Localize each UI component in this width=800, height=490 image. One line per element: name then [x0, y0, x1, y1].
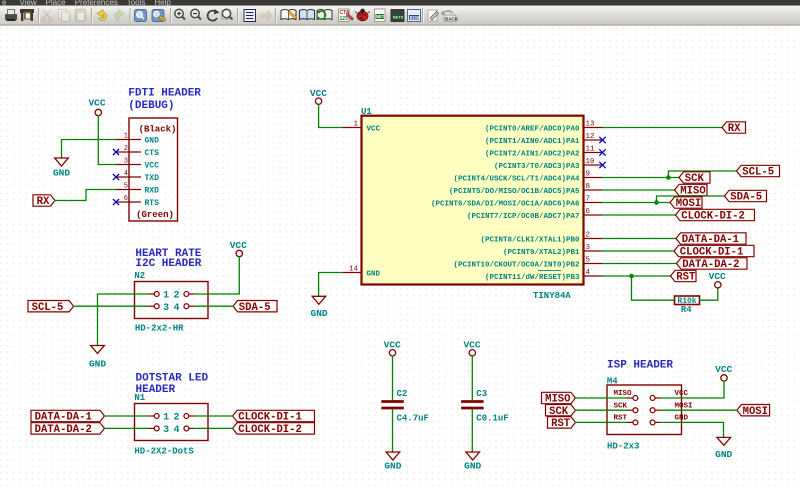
icon library editor: [281, 10, 297, 20]
global label MISO (right): [675, 184, 708, 195]
wire M4 to MOSI: [662, 409, 737, 411]
svg-text:DATA-DA-1: DATA-DA-1: [682, 234, 739, 246]
pin 3 VCC of FDTI header: [116, 164, 141, 166]
svg-text:GND: GND: [311, 308, 328, 319]
svg-text:3: 3: [163, 303, 169, 314]
svg-text:(PCINT3/T0/ADC3)PA3: (PCINT3/T0/ADC3)PA3: [494, 163, 580, 171]
pin GND (right) of M4: [655, 421, 661, 423]
svg-text:HD-2x3: HD-2x3: [607, 442, 639, 452]
no-connect X on RTS pin: [113, 199, 119, 205]
svg-text:9: 9: [586, 171, 591, 179]
svg-text:RST: RST: [614, 415, 628, 423]
svg-text:GND: GND: [367, 270, 381, 278]
svg-text:SDA-5: SDA-5: [730, 192, 762, 204]
svg-text:RXD: RXD: [145, 186, 160, 195]
global label MOSI (right): [670, 197, 702, 208]
IC U1 body: [362, 116, 584, 285]
svg-text:1: 1: [163, 291, 169, 302]
icon rescue/archive: [317, 10, 333, 20]
wire MISO label to M4: [576, 397, 627, 399]
icon BOM: [408, 10, 421, 22]
svg-text:10: 10: [586, 158, 596, 166]
no-connect X on pin 12: [599, 137, 605, 143]
icon back-annotate: [441, 11, 459, 22]
pin RST (left) of M4: [627, 421, 633, 423]
svg-text:VCC: VCC: [715, 364, 732, 375]
connector N2 body: [135, 282, 209, 319]
svg-text:TXD: TXD: [145, 174, 160, 183]
svg-text:GND: GND: [715, 449, 732, 460]
icon zoom fit: [222, 9, 233, 19]
svg-text:6: 6: [586, 208, 591, 216]
global label SCL-5 (left): [28, 301, 74, 312]
svg-text:NET: NET: [376, 14, 385, 19]
global label CLOCK-DI-2 (U1): [676, 209, 755, 220]
global label RST (ISP): [548, 417, 576, 428]
wire VCC to M4: [662, 381, 725, 398]
pin 1 VCC of U1: [342, 127, 362, 129]
pin 8 PA5 of U1: [584, 189, 603, 191]
icon find-replace: [152, 10, 166, 22]
svg-text:14: 14: [349, 266, 359, 274]
svg-text:RX: RX: [37, 196, 50, 208]
svg-text:SCK: SCK: [549, 406, 569, 418]
wire VCC to C3: [471, 356, 473, 400]
power symbol VCC (C3): [469, 350, 475, 356]
svg-text:GND: GND: [145, 136, 160, 145]
toolbar separators: [38, 8, 40, 23]
svg-text:3: 3: [586, 244, 591, 252]
svg-text:MISO: MISO: [614, 390, 633, 398]
global label MISO (ISP): [542, 392, 576, 403]
svg-text:VCC: VCC: [384, 339, 401, 350]
svg-text:FDTI HEADER: FDTI HEADER: [128, 87, 201, 99]
svg-text:TINY84A: TINY84A: [533, 291, 571, 301]
svg-text:(PCINT11/dW/RESET)PB3: (PCINT11/dW/RESET)PB3: [485, 274, 580, 282]
icon find: [135, 10, 147, 22]
icon zoom out: [191, 9, 201, 19]
connector FDTI header body: [129, 118, 178, 221]
no-connect X on pin 10: [599, 162, 605, 168]
svg-text:MOSI: MOSI: [675, 402, 693, 410]
svg-text:SCL-5: SCL-5: [32, 302, 64, 314]
svg-text:(Black): (Black): [139, 125, 177, 135]
icon ERC ladybug: [355, 9, 370, 21]
global label RST (U1): [671, 270, 697, 281]
svg-text:3: 3: [163, 425, 169, 436]
global label RX (left): [33, 195, 55, 206]
wire pin3 to CLOCK-DI-1: [603, 250, 675, 252]
global label SDA-5 (right of N2): [233, 301, 277, 312]
svg-text:DATA-DA-2: DATA-DA-2: [682, 259, 739, 271]
svg-text:5: 5: [586, 257, 591, 265]
pin SCK (left) of M4: [627, 409, 633, 411]
pin 13 PA0 of U1: [584, 127, 603, 129]
pin 11 PA2 of U1: [584, 152, 603, 154]
svg-text:(PCINT1/AIN0/ADC1)PA1: (PCINT1/AIN0/ADC1)PA1: [485, 138, 580, 146]
svg-text:C2: C2: [397, 389, 408, 399]
global label RX (right): [722, 122, 746, 133]
svg-text:RX: RX: [728, 123, 741, 135]
icon redo (disabled): [115, 10, 125, 21]
svg-text:5: 5: [124, 183, 128, 191]
global label SCL-5 (right): [737, 165, 780, 176]
global label CLOCK-DI-1 (U1): [674, 245, 754, 256]
pin VCC (right) of M4: [655, 397, 661, 399]
svg-text:CLOCK-DI-2: CLOCK-DI-2: [238, 424, 302, 436]
icon assign footprints: [428, 10, 439, 21]
pin 14 GND of U1: [342, 272, 362, 274]
wire VCC to N2 pin2: [195, 257, 240, 294]
wire M4 to GND: [662, 422, 724, 437]
wire pin6 to CLOCK-DI-2: [603, 214, 676, 216]
wire N2 pin4 to SDA-5: [195, 305, 234, 307]
icon redraw: [208, 9, 220, 21]
svg-text:MOSI: MOSI: [676, 198, 701, 210]
wire U1 pin14 to GND: [319, 273, 342, 297]
no-connect X on TXD pin: [113, 174, 119, 180]
svg-text:RST: RST: [676, 272, 696, 284]
wire pin4 to RST: [603, 275, 671, 277]
svg-text:2: 2: [173, 291, 179, 302]
pin MOSI (right) of M4: [655, 409, 661, 411]
svg-text:VCC: VCC: [463, 339, 480, 350]
svg-text:3: 3: [124, 158, 128, 166]
pin 3 PB1 of U1: [584, 250, 603, 252]
svg-text:SDA-5: SDA-5: [239, 302, 271, 314]
svg-text:GND: GND: [464, 461, 481, 472]
pin 6 PA7 of U1: [584, 214, 603, 216]
svg-text:4: 4: [586, 269, 591, 277]
icon print: [5, 10, 17, 22]
svg-text:ISP HEADER: ISP HEADER: [607, 359, 673, 371]
global label CLOCK-DI-2 (right): [233, 423, 315, 434]
wire pin7 to MOSI and SDA-5: [603, 202, 671, 204]
svg-text:VCC: VCC: [675, 390, 689, 398]
svg-text:CLOCK-DI-2: CLOCK-DI-2: [681, 211, 745, 223]
wire VCC to FDTI pin3: [98, 116, 116, 165]
svg-text:I2C HEADER: I2C HEADER: [135, 258, 201, 270]
svg-text:(PCINT2/AIN1/ADC2)PA2: (PCINT2/AIN1/ADC2)PA2: [485, 150, 580, 158]
svg-text:VCC: VCC: [367, 125, 381, 133]
wire DATA-DA-1 to N1 pin1: [105, 415, 148, 417]
svg-text:N2: N2: [134, 271, 145, 281]
svg-text:1: 1: [353, 121, 358, 129]
pin 1 GND of FDTI header: [116, 139, 141, 141]
svg-text:BACK: BACK: [445, 16, 459, 21]
svg-text:SCK: SCK: [685, 173, 705, 185]
svg-text:DATA-DA-1: DATA-DA-1: [35, 412, 92, 424]
icon hierarchy list: [244, 10, 256, 22]
svg-text:(PCINT5/DO/MISO/OC1B/ADC5)PA5: (PCINT5/DO/MISO/OC1B/ADC5)PA5: [449, 188, 580, 196]
wire C2 to GND: [392, 409, 394, 452]
wire pin13 to RX: [603, 127, 723, 129]
wire junction to R4: [632, 276, 675, 300]
global label SDA-5 (right): [725, 190, 767, 201]
icon nets highlight: [391, 10, 404, 22]
wire pin5 to DATA-DA-2: [603, 263, 677, 265]
icon cut (disabled): [42, 10, 53, 22]
svg-text:(PCINT6/SDA/DI/MOSI/OC1A/ADC6): (PCINT6/SDA/DI/MOSI/OC1A/ADC6)PA6: [431, 200, 580, 208]
svg-text:HD-2X2-DotS: HD-2X2-DotS: [134, 447, 194, 457]
global label DATA-DA-1 (left): [31, 410, 105, 421]
no-connect X on pin 11: [599, 149, 605, 155]
global label SCK (ISP): [546, 405, 576, 416]
overline on RESET: [538, 270, 561, 272]
pin 6 RTS of FDTI header: [116, 201, 141, 203]
svg-text:7: 7: [586, 196, 591, 204]
connector N1 body: [135, 404, 209, 441]
global label MOSI (ISP right): [737, 405, 770, 416]
junction on pin7 wire: [654, 200, 659, 205]
pin 7 PA6 of U1: [584, 202, 603, 204]
pin 4 of N1: [189, 427, 195, 429]
svg-text:DATA-DA-2: DATA-DA-2: [35, 424, 92, 436]
pin 1 of N2: [148, 293, 155, 295]
svg-text:GND: GND: [89, 358, 106, 369]
svg-text:GND: GND: [675, 415, 689, 423]
svg-text:1: 1: [124, 133, 128, 141]
icon zoom in: [175, 9, 185, 19]
power symbol VCC (ISP): [721, 375, 727, 381]
junction on pin4 wire: [629, 274, 634, 279]
wire VCC to U1 pin1: [319, 105, 342, 128]
pin 2 of N1: [189, 415, 195, 417]
wire pin2 to DATA-DA-1: [603, 238, 677, 240]
global label DATA-DA-1 (U1): [676, 233, 746, 244]
svg-text:MISO: MISO: [545, 394, 570, 406]
ground symbol (FDTI): [55, 158, 69, 166]
wire RX label to FDTI RXD pin: [55, 190, 116, 201]
wire C3 to GND: [471, 409, 473, 452]
menu bar: [0, 0, 800, 6]
svg-text:MOSI: MOSI: [743, 406, 768, 418]
capacitor C3: [461, 400, 484, 403]
svg-text:C3: C3: [476, 389, 487, 399]
svg-text:CLOCK-DI-1: CLOCK-DI-1: [238, 412, 302, 424]
pin 4 PB3 of U1: [584, 275, 603, 277]
svg-text:(PCINT4/USCK/SCL/T1/ADC4)PA4: (PCINT4/USCK/SCL/T1/ADC4)PA4: [453, 175, 580, 183]
pin 5 RXD of FDTI header: [116, 189, 141, 191]
wire pin8 to MISO: [603, 189, 675, 191]
global label DATA-DA-2 (U1): [677, 258, 748, 269]
svg-text:(PCINT10/CKOUT/OC0A/INT0)PB2: (PCINT10/CKOUT/OC0A/INT0)PB2: [453, 261, 580, 269]
pin 12 PA1 of U1: [584, 139, 603, 141]
wire R4 to VCC: [700, 288, 718, 300]
svg-text:2: 2: [124, 145, 128, 153]
svg-text:(Green): (Green): [136, 210, 174, 220]
wire N1 pin4 to CLOCK-DI-2: [195, 427, 233, 429]
pin 5 PB2 of U1: [584, 263, 603, 265]
power symbol VCC (R4): [715, 282, 721, 288]
global label DATA-DA-2 (left): [31, 423, 105, 434]
svg-text:13: 13: [586, 121, 596, 129]
svg-text:VCC: VCC: [230, 240, 247, 251]
svg-text:N1: N1: [134, 393, 145, 403]
no-connect X on CTS pin: [113, 149, 119, 155]
power symbol VCC (N2): [236, 250, 242, 256]
ground symbol (C2): [386, 452, 400, 460]
global label CLOCK-DI-1 (right): [233, 410, 315, 421]
svg-text:GND: GND: [53, 168, 70, 179]
pin 4 TXD of FDTI header: [116, 176, 141, 178]
pin 1 of N1: [148, 415, 155, 417]
pin 3 of N1: [148, 427, 155, 429]
ground symbol (C3): [466, 452, 480, 460]
icon library browser: [300, 10, 315, 20]
wire RST label to M4: [576, 421, 627, 423]
wire SCL-5 to N2 pin3: [74, 305, 148, 307]
pin 9 PA4 of U1: [584, 177, 603, 179]
wire N1 pin2 to CLOCK-DI-1: [195, 415, 233, 417]
icon paste (disabled): [76, 9, 86, 22]
svg-text:(PCINT8/CLKI/XTAL1)PB0: (PCINT8/CLKI/XTAL1)PB0: [480, 236, 580, 244]
svg-text:VCC: VCC: [88, 98, 105, 109]
icon leave sheet (disabled): [261, 11, 271, 20]
svg-text:C4.7uF: C4.7uF: [397, 414, 429, 424]
global label SCK: [679, 172, 710, 183]
pin 10 PA3 of U1: [584, 164, 603, 166]
wire pin9 to SCK and SCL-5: [603, 177, 680, 179]
icon copy (disabled): [59, 10, 70, 22]
ground symbol (ISP): [717, 437, 731, 445]
svg-text:GND: GND: [384, 461, 401, 472]
svg-text:11: 11: [586, 146, 596, 154]
connector M4 body: [607, 385, 682, 435]
ground symbol (N2): [91, 346, 105, 354]
svg-text:2: 2: [173, 413, 179, 424]
svg-text:VCC: VCC: [709, 271, 726, 282]
pin 2 PB0 of U1: [584, 238, 603, 240]
svg-text:4: 4: [173, 425, 179, 436]
ground symbol (U1): [312, 296, 326, 304]
svg-text:4: 4: [173, 303, 179, 314]
svg-text:8: 8: [586, 183, 591, 191]
svg-text:SCK: SCK: [614, 402, 628, 410]
wire N2 pin1 to GND: [98, 294, 148, 346]
svg-text:VCC: VCC: [310, 88, 327, 99]
svg-text:RST: RST: [551, 418, 571, 430]
svg-text:NETS: NETS: [393, 14, 404, 19]
svg-text:VCC: VCC: [145, 161, 160, 170]
icon annotate: [339, 9, 354, 22]
svg-text:4: 4: [124, 170, 128, 178]
svg-text:HD-2x2-HR: HD-2x2-HR: [135, 323, 184, 333]
svg-text:C0.1uF: C0.1uF: [476, 414, 508, 424]
wire VCC to C2: [392, 356, 394, 400]
wire DATA-DA-2 to N1 pin3: [105, 427, 148, 429]
power symbol VCC (FDTI): [95, 109, 101, 115]
capacitor C2: [381, 400, 404, 403]
pin 4 of N2: [189, 305, 195, 307]
pin 3 of N2: [148, 305, 155, 307]
wire SCK label to M4: [576, 409, 627, 411]
svg-text:123: 123: [340, 16, 349, 22]
svg-text:(PCINT9/XTAL2)PB1: (PCINT9/XTAL2)PB1: [503, 249, 580, 257]
svg-text:CTS: CTS: [145, 149, 160, 158]
icon undo: [97, 10, 107, 21]
svg-text:U1: U1: [361, 107, 372, 117]
pin MISO (left) of M4: [627, 397, 633, 399]
svg-text:SCL-5: SCL-5: [742, 167, 774, 179]
wire FDTI pin1 to GND: [62, 140, 117, 159]
icon plot: [20, 9, 34, 21]
svg-text:1: 1: [163, 413, 169, 424]
junction on pin9 wire: [666, 175, 671, 180]
svg-text:DOTSTAR LED: DOTSTAR LED: [136, 372, 209, 384]
svg-text:RTS: RTS: [145, 199, 160, 208]
power symbol VCC (U1): [315, 98, 321, 104]
svg-text:2: 2: [586, 232, 591, 240]
svg-text:12: 12: [586, 133, 595, 141]
pin 2 of N2: [189, 293, 195, 295]
svg-text:BOM: BOM: [410, 15, 420, 20]
svg-text:(PCINT7/ICP/OC0B/ADC7)PA7: (PCINT7/ICP/OC0B/ADC7)PA7: [467, 213, 580, 221]
svg-text:6: 6: [124, 195, 128, 203]
svg-text:(DEBUG): (DEBUG): [128, 100, 174, 112]
power symbol VCC (C2): [389, 350, 395, 356]
icon netlist: [375, 9, 386, 22]
resistor R4 body: [675, 296, 700, 305]
svg-text:R4: R4: [681, 305, 692, 315]
svg-text:(PCINT0/AREF/ADC0)PA0: (PCINT0/AREF/ADC0)PA0: [485, 125, 580, 133]
svg-text:CLOCK-DI-1: CLOCK-DI-1: [680, 247, 744, 259]
pin 2 CTS of FDTI header: [116, 151, 141, 153]
